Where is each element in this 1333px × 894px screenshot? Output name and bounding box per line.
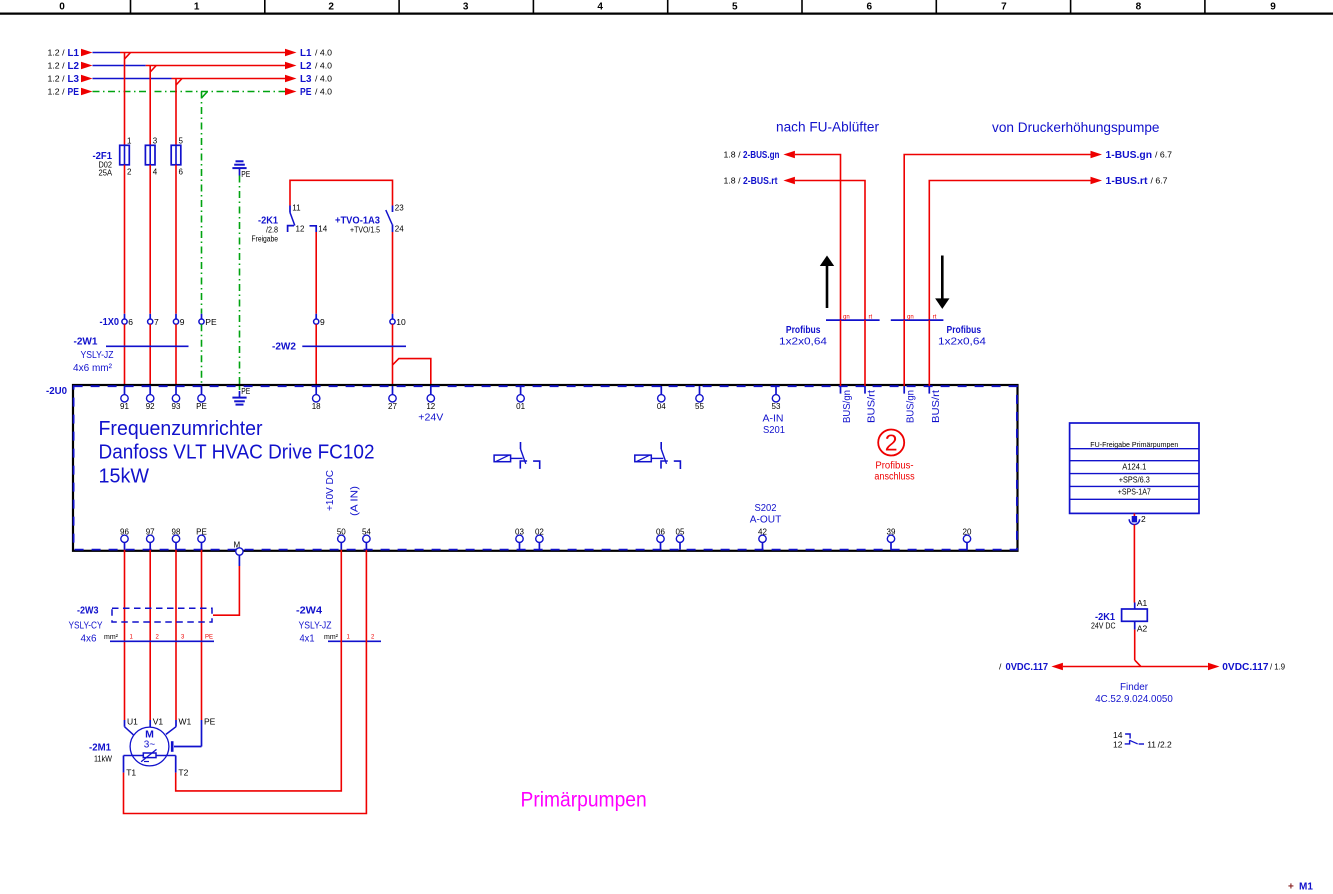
svg-text:6: 6 bbox=[179, 168, 184, 177]
svg-text:+SPS/6.3: +SPS/6.3 bbox=[1119, 475, 1150, 485]
-2U0 pin BUS/gn bbox=[904, 386, 917, 423]
cable profibus right bbox=[891, 314, 987, 347]
location label +M1 bbox=[1288, 882, 1313, 893]
svg-text:M1: M1 bbox=[1299, 882, 1313, 893]
svg-text:+TVO/1.5: +TVO/1.5 bbox=[350, 226, 380, 235]
terminal -1X0:PE bbox=[199, 314, 217, 327]
svg-text:12: 12 bbox=[296, 225, 305, 234]
svg-text:rt: rt bbox=[933, 314, 937, 320]
wire BUS/gn drop B bbox=[903, 320, 905, 386]
profibus marker circle 2 bbox=[878, 429, 904, 455]
svg-text:L2: L2 bbox=[68, 60, 80, 72]
wire 1-BUS.gn bbox=[904, 155, 1090, 321]
svg-text:55: 55 bbox=[695, 402, 704, 411]
svg-text:4: 4 bbox=[597, 1, 603, 12]
svg-text:3: 3 bbox=[463, 1, 469, 12]
relay coil -2K1 bbox=[1122, 598, 1148, 634]
svg-text:4x6: 4x6 bbox=[81, 634, 97, 645]
svg-text:L1: L1 bbox=[300, 47, 312, 59]
svg-text:PE: PE bbox=[241, 170, 250, 179]
svg-text:L3: L3 bbox=[68, 73, 80, 85]
frequency converter -2U0 box bbox=[73, 385, 1018, 551]
svg-text:3: 3 bbox=[181, 635, 185, 641]
svg-text:YSLY-JZ: YSLY-JZ bbox=[81, 350, 114, 361]
svg-text:-1X0: -1X0 bbox=[100, 316, 120, 328]
svg-text:PE: PE bbox=[205, 317, 217, 327]
svg-text:1.2 /: 1.2 / bbox=[48, 87, 66, 97]
fuse -2F1 label bbox=[93, 150, 113, 178]
svg-text:U1: U1 bbox=[127, 717, 138, 727]
svg-text:4: 4 bbox=[153, 168, 158, 177]
wire fuse1 to terminal bbox=[124, 165, 126, 314]
wire drop L1 bbox=[124, 53, 126, 146]
svg-text:24V DC: 24V DC bbox=[1091, 622, 1116, 631]
contact -2K1 label bbox=[252, 215, 279, 244]
wire pin 97 to motor bbox=[149, 550, 151, 720]
-2U0 pin 18 top bbox=[312, 386, 321, 411]
svg-text:/ 6.7: / 6.7 bbox=[1151, 176, 1168, 186]
terminal -1X0:9 bbox=[173, 314, 184, 327]
svg-text:15kW: 15kW bbox=[99, 465, 150, 488]
wire pin PE to motor bbox=[201, 550, 203, 720]
svg-text:-2W1: -2W1 bbox=[74, 336, 98, 348]
svg-text:YSLY-CY: YSLY-CY bbox=[69, 621, 103, 632]
svg-text:9: 9 bbox=[1270, 1, 1276, 12]
contact cross-reference 11/12/14 bbox=[1113, 730, 1172, 750]
svg-text:YSLY-JZ: YSLY-JZ bbox=[299, 621, 332, 632]
svg-text:1.2 /: 1.2 / bbox=[48, 74, 66, 84]
svg-text:1x2x0,64: 1x2x0,64 bbox=[938, 337, 987, 348]
terminal -1X0:7 bbox=[148, 314, 159, 327]
svg-text:-2W2: -2W2 bbox=[272, 341, 296, 353]
svg-text:S201: S201 bbox=[763, 425, 785, 436]
motor -2M1 label bbox=[89, 742, 112, 764]
svg-text:12: 12 bbox=[426, 402, 435, 411]
terminal -1X0:9 bbox=[314, 314, 325, 327]
cable -2W2 bbox=[272, 341, 406, 353]
svg-text:1: 1 bbox=[130, 635, 134, 641]
net label 1.8/2-BUS.rt bbox=[724, 175, 795, 187]
svg-text:/2.8: /2.8 bbox=[266, 226, 278, 235]
svg-text:nach FU-Ablüfter: nach FU-Ablüfter bbox=[776, 120, 880, 135]
svg-text:7: 7 bbox=[1001, 1, 1007, 12]
motor -2M1 PE connection bbox=[172, 720, 201, 752]
svg-text:27: 27 bbox=[388, 402, 397, 411]
-2U0 pin 20 bottom bbox=[963, 527, 972, 550]
svg-text:/ 6.7: / 6.7 bbox=[1155, 150, 1172, 160]
net label dest L1/4.0 bbox=[285, 47, 332, 59]
svg-text:9: 9 bbox=[320, 317, 325, 327]
net label 0VDC.117/1.9 right bbox=[1208, 661, 1285, 673]
svg-text:6: 6 bbox=[128, 317, 133, 327]
svg-text:2: 2 bbox=[885, 429, 898, 455]
svg-text:1: 1 bbox=[127, 137, 132, 146]
svg-text:04: 04 bbox=[657, 402, 666, 411]
wire -1X0:PE to -2U0 bbox=[201, 324, 203, 386]
net label /0VDC.117 left bbox=[999, 661, 1063, 673]
svg-text:L2: L2 bbox=[300, 60, 312, 72]
A-IN S201 label bbox=[763, 414, 786, 437]
svg-text:BUS/rt: BUS/rt bbox=[931, 390, 942, 423]
svg-text:7: 7 bbox=[154, 317, 159, 327]
svg-text:/2.2: /2.2 bbox=[1158, 739, 1172, 749]
wire rail L3 bbox=[93, 79, 286, 86]
svg-text:V1: V1 bbox=[153, 717, 164, 727]
svg-text:8: 8 bbox=[1136, 1, 1142, 12]
cable -2W3 screen bbox=[112, 608, 212, 622]
wire fuse3 to terminal bbox=[175, 165, 177, 314]
fuse -2F1 pole 1-2 bbox=[120, 137, 132, 177]
svg-text:0VDC.117: 0VDC.117 bbox=[1006, 661, 1049, 673]
svg-text:4x1: 4x1 bbox=[300, 634, 315, 645]
internal thermal switch 1 bbox=[494, 442, 540, 469]
svg-text:1: 1 bbox=[194, 1, 200, 12]
-2U0 pin BUS/rt bbox=[865, 386, 878, 423]
net label dest PE/4.0 bbox=[285, 86, 332, 98]
wire 1-BUS.rt bbox=[929, 181, 1090, 321]
svg-text:25A: 25A bbox=[99, 169, 113, 178]
svg-text:FU-Freigabe Primärpumpen: FU-Freigabe Primärpumpen bbox=[1090, 440, 1178, 449]
svg-text:PE: PE bbox=[196, 402, 207, 411]
-2U0 pin 01 top bbox=[516, 386, 525, 411]
net label source 1.2/PE bbox=[48, 86, 93, 98]
svg-text:2-BUS.gn: 2-BUS.gn bbox=[743, 149, 780, 161]
wire BUS/rt drop B bbox=[928, 320, 930, 386]
cable -2W3 line bbox=[110, 635, 214, 642]
svg-text:11: 11 bbox=[292, 204, 301, 213]
-2U0 pin 92 top bbox=[146, 386, 155, 411]
wire terminal 10 to pin 27 bbox=[392, 324, 394, 386]
+24V label bbox=[418, 413, 443, 424]
svg-text:Finder: Finder bbox=[1120, 681, 1148, 693]
wire -1X0:9 to -2U0 bbox=[175, 324, 177, 386]
wire M to cable screen bbox=[213, 566, 239, 615]
wire +24V branch to pin 12 bbox=[393, 359, 431, 386]
terminal strip -1X0 label bbox=[100, 316, 120, 328]
thermistor PTC bbox=[124, 749, 176, 761]
net label dest L3/4.0 bbox=[285, 73, 332, 85]
fuse -2F1 pole 5-6 bbox=[171, 137, 183, 177]
wire 24 to terminal 10 bbox=[392, 232, 394, 314]
svg-text:BUS/gn: BUS/gn bbox=[906, 390, 917, 423]
svg-text:11kW: 11kW bbox=[94, 754, 112, 764]
wire connector to relay A1 bbox=[1133, 525, 1135, 603]
svg-text:A2: A2 bbox=[1137, 624, 1148, 634]
fuse -2F1 pole 3-4 bbox=[145, 137, 157, 177]
svg-text:+10V DC: +10V DC bbox=[325, 470, 336, 511]
-2U0 label bbox=[46, 385, 67, 397]
wire pin 98 to motor bbox=[175, 550, 177, 720]
svg-text:1-BUS.gn: 1-BUS.gn bbox=[1106, 149, 1153, 161]
contact +TVO-1A3 23/24 bbox=[386, 204, 404, 234]
wire BUS/gn drop A bbox=[840, 320, 842, 386]
motor -2M1 leads U1 V1 W1 bbox=[125, 717, 216, 735]
net label source 1.2/L1 bbox=[48, 47, 93, 59]
earth symbol PE upper bbox=[232, 161, 250, 179]
svg-text:6: 6 bbox=[867, 1, 873, 12]
-2U0 pin BUS/rt bbox=[929, 386, 942, 423]
terminal -1X0:10 bbox=[390, 314, 406, 327]
svg-text:W1: W1 bbox=[179, 717, 192, 727]
svg-text:-2M1: -2M1 bbox=[89, 742, 111, 754]
svg-text:2: 2 bbox=[156, 635, 160, 641]
contact -2K1 11/12/14 bbox=[288, 204, 328, 234]
column ruler bbox=[0, 0, 1333, 14]
svg-text:24: 24 bbox=[395, 225, 404, 234]
-2U0 pin 12 top bbox=[426, 386, 435, 411]
svg-text:3: 3 bbox=[153, 137, 158, 146]
wire T1 to pin 54 bbox=[124, 550, 367, 814]
-2U0 pin 97 bottom bbox=[146, 527, 155, 550]
svg-text:23: 23 bbox=[395, 204, 404, 213]
svg-text:T2: T2 bbox=[178, 768, 188, 778]
svg-text:-2W4: -2W4 bbox=[296, 605, 322, 617]
(A IN) label bbox=[350, 486, 361, 516]
-2U0 pin 02 bottom bbox=[535, 527, 544, 550]
page function text Primaerpumpen bbox=[521, 789, 647, 812]
cable -2W4 label bbox=[296, 605, 338, 645]
svg-text:-2W3: -2W3 bbox=[77, 605, 99, 617]
svg-text:PE: PE bbox=[68, 86, 80, 98]
svg-text:01: 01 bbox=[516, 402, 525, 411]
svg-text:L3: L3 bbox=[300, 73, 312, 85]
svg-text:5: 5 bbox=[179, 137, 184, 146]
wire 14 to terminal 9 bbox=[315, 232, 317, 314]
svg-text:S202: S202 bbox=[755, 503, 777, 514]
svg-text:Frequenzumrichter: Frequenzumrichter bbox=[99, 417, 263, 440]
svg-text:9: 9 bbox=[180, 317, 185, 327]
svg-text:Profibus-: Profibus- bbox=[875, 460, 913, 471]
svg-text:PE: PE bbox=[205, 635, 213, 641]
-2U0 pin 04 top bbox=[657, 386, 666, 411]
-2U0 pin BUS/gn bbox=[841, 386, 854, 423]
svg-text:0VDC.117: 0VDC.117 bbox=[1222, 661, 1268, 673]
-2U0 pin M bottom edge bbox=[233, 541, 243, 567]
wire drop L2 bbox=[149, 66, 151, 146]
-2U0 pin 53 top bbox=[772, 386, 781, 411]
wire pin 96 to motor bbox=[124, 550, 126, 720]
-2U0 title text bbox=[99, 417, 375, 488]
svg-text:Profibus: Profibus bbox=[786, 324, 821, 336]
svg-text:Profibus: Profibus bbox=[947, 324, 982, 336]
net label source 1.2/L2 bbox=[48, 60, 93, 72]
wire A2 down bbox=[1134, 630, 1136, 661]
svg-text:1: 1 bbox=[347, 635, 351, 641]
wire BUS/rt drop A bbox=[864, 320, 866, 386]
svg-text:1-BUS.rt: 1-BUS.rt bbox=[1106, 175, 1148, 187]
-2U0 pin 42 bottom bbox=[758, 527, 767, 550]
wire earth drop bbox=[239, 176, 241, 387]
wire drop L3 bbox=[175, 79, 177, 146]
svg-text:Freigabe: Freigabe bbox=[252, 235, 279, 244]
svg-text:anschluss: anschluss bbox=[874, 471, 914, 482]
svg-text:PE: PE bbox=[300, 86, 312, 98]
svg-text:11: 11 bbox=[1147, 739, 1156, 749]
net label dest L2/4.0 bbox=[285, 60, 332, 72]
cable -2W4 line bbox=[328, 635, 381, 642]
svg-text:gn: gn bbox=[843, 314, 850, 320]
svg-text:1.2 /: 1.2 / bbox=[48, 48, 66, 58]
svg-text:1.8 /: 1.8 / bbox=[724, 150, 742, 160]
net label 1-BUS.gn/6.7 bbox=[1091, 149, 1173, 161]
motor T1 T2 pins bbox=[124, 756, 189, 778]
svg-text:3~: 3~ bbox=[144, 739, 156, 750]
interface box FU-Freigabe Primaerpumpen bbox=[1070, 423, 1199, 513]
-2U0 pin 50 bottom bbox=[337, 527, 346, 550]
svg-text:4x6 mm²: 4x6 mm² bbox=[73, 363, 113, 374]
svg-text:PE: PE bbox=[204, 717, 216, 727]
net label source 1.2/L3 bbox=[48, 73, 93, 85]
wire -1X0:7 to -2U0 bbox=[149, 324, 151, 386]
svg-text:+: + bbox=[1288, 882, 1294, 893]
Finder type label bbox=[1095, 681, 1173, 705]
-2U0 pin 98 bottom bbox=[172, 527, 181, 550]
-2U0 pin 05 bottom bbox=[676, 527, 685, 550]
wire 2-BUS.gn bbox=[795, 155, 841, 321]
wire PE drop bbox=[201, 92, 203, 314]
net label 1-BUS.rt/6.7 bbox=[1091, 175, 1168, 187]
svg-text:5: 5 bbox=[732, 1, 738, 12]
svg-text:+24V: +24V bbox=[418, 413, 443, 424]
svg-text:/ 4.0: / 4.0 bbox=[315, 87, 332, 97]
svg-text:14: 14 bbox=[1113, 730, 1123, 740]
-2U0 pin 06 bottom bbox=[656, 527, 665, 550]
relay -2K1 label bbox=[1091, 611, 1116, 631]
svg-text:(A IN): (A IN) bbox=[350, 486, 361, 516]
cable -2W3 label bbox=[69, 605, 119, 645]
svg-text:2: 2 bbox=[328, 1, 334, 12]
wire fuse2 to terminal bbox=[149, 165, 151, 314]
wire -1X0:6 to -2U0 bbox=[124, 324, 126, 386]
svg-text:+SPS-1A7: +SPS-1A7 bbox=[1118, 487, 1151, 497]
internal thermal switch 2 bbox=[635, 442, 681, 469]
earth symbol PE inside -2U0 bbox=[232, 386, 250, 405]
svg-text:L1: L1 bbox=[68, 47, 80, 59]
wire T2 to pin 50 bbox=[176, 550, 342, 791]
svg-text:93: 93 bbox=[172, 402, 181, 411]
svg-text:18: 18 bbox=[312, 402, 321, 411]
svg-text:/: / bbox=[999, 662, 1002, 672]
svg-text:-2U0: -2U0 bbox=[46, 385, 67, 397]
-2U0 pin 54 bottom bbox=[362, 527, 371, 550]
svg-text:92: 92 bbox=[146, 402, 155, 411]
svg-text:2-BUS.rt: 2-BUS.rt bbox=[743, 175, 778, 187]
wire 0VDC rail bbox=[1063, 660, 1208, 666]
svg-text:von Druckerhöhungspumpe: von Druckerhöhungspumpe bbox=[992, 120, 1160, 135]
direction arrow up bbox=[820, 256, 834, 309]
svg-text:A-OUT: A-OUT bbox=[750, 514, 782, 525]
svg-text:1.8 /: 1.8 / bbox=[724, 176, 742, 186]
-2U0 pin 39 bottom bbox=[887, 527, 896, 550]
svg-text:0: 0 bbox=[59, 1, 65, 12]
wire terminal 9 to pin 18 bbox=[315, 324, 317, 386]
svg-text:Danfoss VLT HVAC Drive FC102: Danfoss VLT HVAC Drive FC102 bbox=[99, 441, 375, 464]
svg-text:A-IN: A-IN bbox=[763, 414, 784, 425]
-2U0 pin 03 bottom bbox=[515, 527, 524, 550]
-2U0 pin 91 top bbox=[120, 386, 129, 411]
-2U0 pin 96 bottom bbox=[120, 527, 129, 550]
svg-text:1.2 /: 1.2 / bbox=[48, 61, 66, 71]
-2U0 pin PE top bbox=[196, 386, 207, 411]
svg-text:/ 4.0: / 4.0 bbox=[315, 48, 332, 58]
-2U0 pin 27 top bbox=[388, 386, 397, 411]
cable profibus left bbox=[779, 314, 880, 347]
svg-text:PE: PE bbox=[241, 387, 250, 396]
contact +TVO-1A3 label bbox=[335, 215, 380, 235]
-2U0 pin PE bottom bbox=[196, 527, 207, 550]
wire 2-BUS.rt bbox=[795, 181, 865, 321]
motor -2M1 circle bbox=[130, 727, 169, 766]
svg-text:BUS/gn: BUS/gn bbox=[842, 390, 853, 423]
svg-text:53: 53 bbox=[772, 402, 781, 411]
direction arrow down bbox=[935, 256, 949, 309]
heading nach FU-Abluefter bbox=[776, 120, 880, 135]
svg-text:91: 91 bbox=[120, 402, 129, 411]
svg-text:1x2x0,64: 1x2x0,64 bbox=[779, 337, 828, 348]
wire rail PE bbox=[93, 92, 286, 99]
-2U0 pin 93 top bbox=[172, 386, 181, 411]
svg-text:10: 10 bbox=[396, 317, 406, 327]
cable -2W1 bbox=[73, 336, 189, 375]
heading von Druckerhoehungspumpe bbox=[992, 120, 1160, 135]
svg-text:gn: gn bbox=[907, 314, 914, 320]
wire contact feed frame bbox=[290, 180, 393, 205]
profibus marker text bbox=[874, 460, 914, 482]
svg-text:Primärpumpen: Primärpumpen bbox=[521, 789, 647, 812]
connector pin 2 bbox=[1129, 513, 1146, 524]
net label 1.8/2-BUS.gn bbox=[724, 149, 795, 161]
svg-text:T1: T1 bbox=[126, 768, 136, 778]
terminal -1X0:6 bbox=[122, 314, 133, 327]
svg-text:/ 4.0: / 4.0 bbox=[315, 61, 332, 71]
svg-text:mm²: mm² bbox=[104, 632, 118, 641]
+10V DC label bbox=[325, 470, 336, 511]
svg-text:/ 4.0: / 4.0 bbox=[315, 74, 332, 84]
svg-text:14: 14 bbox=[318, 225, 327, 234]
svg-text:/ 1.9: / 1.9 bbox=[1270, 662, 1285, 672]
svg-text:2: 2 bbox=[127, 168, 132, 177]
svg-text:BUS/rt: BUS/rt bbox=[867, 390, 878, 423]
svg-text:rt: rt bbox=[869, 314, 873, 320]
S202 A-OUT label bbox=[750, 503, 782, 525]
svg-text:2: 2 bbox=[1141, 514, 1146, 524]
wire rail L1 bbox=[93, 53, 286, 60]
svg-text:12: 12 bbox=[1113, 739, 1123, 749]
svg-text:mm²: mm² bbox=[324, 632, 338, 641]
svg-text:A124.1: A124.1 bbox=[1122, 462, 1146, 472]
-2U0 pin 55 top bbox=[695, 386, 704, 411]
svg-text:A1: A1 bbox=[1137, 598, 1148, 608]
wire rail L2 bbox=[93, 66, 286, 73]
svg-text:4C.52.9.024.0050: 4C.52.9.024.0050 bbox=[1095, 693, 1173, 705]
svg-text:2: 2 bbox=[371, 635, 375, 641]
